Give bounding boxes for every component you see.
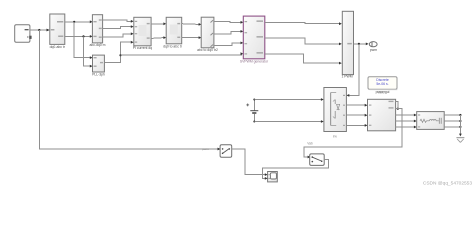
transform block B7 [201, 17, 214, 48]
wire B13 outC to B14 [346, 124, 367, 127]
wire B3 out3 to B5 [103, 32, 134, 37]
wire B7 out2 to B8 [214, 30, 243, 34]
wire branch to B4 in2 [84, 36, 93, 67]
wire B4 out to B5 in4 and branch to B8 in4 [104, 41, 243, 63]
wire B6 out2 to B7 [182, 36, 202, 39]
wire B15 out2 to bus [444, 120, 461, 122]
wire B13 outB to B14 [346, 114, 367, 117]
inverter bridge B13 [324, 88, 347, 132]
wire SWB out loop to scope A in2 [262, 160, 328, 180]
wire B14 out2 to B15 [396, 120, 417, 123]
manual switch SW1 [220, 145, 232, 158]
svg-text:abc to dq0 tr2: abc to dq0 tr2 [197, 48, 218, 52]
rlc load block B15 [417, 112, 445, 130]
svpwm block B8 purple [243, 16, 264, 59]
mux block B9 [342, 11, 353, 74]
wire B6 out1 to B7 [182, 23, 202, 26]
powergui block [368, 77, 397, 90]
svg-text:SVPWM generator: SVPWM generator [240, 59, 269, 63]
scope oval [369, 42, 377, 47]
wire B14 out1 to B15 [396, 114, 417, 117]
pll block B4 [93, 55, 105, 72]
svg-text:abc-dq0 m: abc-dq0 m [89, 43, 105, 47]
wire B13 outA to B14 [346, 104, 367, 107]
wire B14 out3 to B15 [396, 126, 417, 129]
wire B2 out1 to B3 [65, 20, 93, 23]
wire B2 out2 to B3 [65, 35, 93, 38]
measurement block B14 [368, 99, 396, 131]
controller block B5 [134, 17, 151, 46]
wire B5 out2 to B6 [151, 36, 166, 39]
wire bus down to ground [459, 115, 462, 136]
svg-text:inv: inv [333, 134, 337, 138]
wire battery plus to B13 [254, 98, 323, 101]
wire B7 out3 to B8 [214, 42, 243, 46]
svg-text:CSDN @qq_54702553: CSDN @qq_54702553 [423, 181, 472, 187]
wire branch to B4 in1 [74, 22, 92, 59]
wire B15 out3 to bus [444, 126, 461, 128]
wire battery minus to B13 [254, 120, 323, 123]
wire B8 out3 to B9 [265, 54, 342, 65]
manual switch SWB [310, 154, 325, 166]
transform block B2 [50, 14, 65, 44]
svg-text:5e-06 s.: 5e-06 s. [376, 82, 388, 86]
wire B7 out1 to B8 [214, 21, 243, 24]
wire B3 out1 to B5 [103, 20, 134, 23]
svg-text:PI current dq: PI current dq [133, 46, 153, 50]
svg-text:Vabc: Vabc [377, 91, 384, 95]
wire B14 meas stub [396, 102, 399, 110]
wire B8 out1 to B9 [265, 22, 342, 25]
wire SW1 to scope A [232, 149, 268, 176]
wire B14 meas feedback to switch [304, 109, 402, 159]
svg-text:dq0 to abc tr: dq0 to abc tr [163, 44, 183, 48]
measure block B3 [92, 15, 102, 43]
source block B1 [15, 25, 32, 43]
svg-text:PLL-3ph: PLL-3ph [92, 72, 105, 76]
svg-text:pwm: pwm [203, 147, 210, 151]
wire B8 out2 to B9 [265, 38, 342, 45]
wire feedback left long [39, 30, 220, 150]
transform block B6 [166, 17, 182, 44]
svg-text:pwm: pwm [370, 48, 377, 52]
wire B9 out to scope oval [354, 43, 369, 46]
wire B3 out2 to B5 [103, 25, 134, 28]
wire gate feedback B9 to B13 [346, 44, 359, 97]
scope block A [268, 172, 278, 182]
dc source battery [246, 99, 258, 123]
svg-text:Vab: Vab [307, 141, 313, 145]
wire B1 to B2 [30, 29, 50, 32]
ground [456, 138, 464, 143]
wire B5 out1 to B6 [151, 22, 166, 25]
wire B15 out1 to bus [444, 114, 461, 116]
svg-text:1 PWM: 1 PWM [341, 75, 352, 79]
svg-text:dq0-abc tr: dq0-abc tr [50, 45, 66, 49]
